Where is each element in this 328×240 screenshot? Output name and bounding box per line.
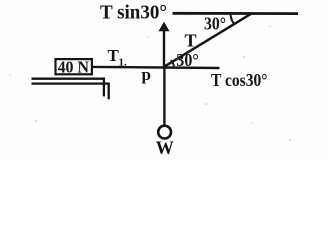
svg-text:30°: 30°: [204, 14, 226, 34]
force arrow T sin30 (vertical, upward from p): [163, 28, 165, 68]
svg-text:40 N: 40 N: [58, 58, 90, 77]
svg-text:T cos30°: T cos30°: [211, 70, 268, 90]
angle arc 30 deg at ceiling junction: [231, 14, 234, 24]
table edge outer line: [32, 84, 109, 100]
block 40 N (rect): [56, 59, 92, 74]
ceiling line: [173, 12, 299, 15]
svg-text:W: W: [156, 138, 174, 154]
string from p down to weight W: [163, 68, 165, 125]
svg-text:T sin30°: T sin30°: [100, 2, 167, 24]
svg-text:T: T: [185, 31, 197, 51]
table edge inner line: [32, 79, 104, 97]
svg-text:1.: 1.: [119, 56, 128, 68]
horizontal string through p (left to block, right = T cos30 line): [93, 67, 220, 68]
string T (diagonal wire from node p to ceiling): [164, 13, 252, 67]
svg-text:30°: 30°: [176, 50, 199, 70]
weight ball W (circle): [158, 126, 171, 139]
svg-text:p: p: [142, 65, 151, 84]
angle arc 30 deg at node p: [171, 60, 174, 66]
